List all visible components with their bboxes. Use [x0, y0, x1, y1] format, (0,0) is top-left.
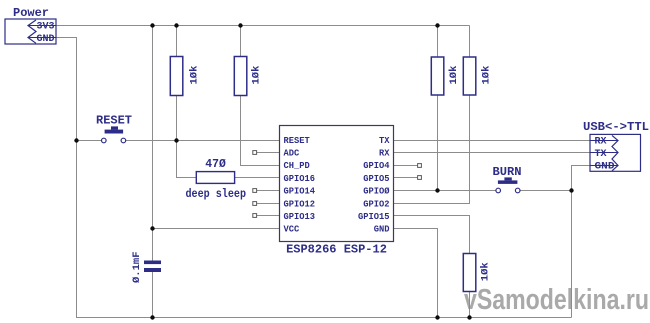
- pin stub GPIO4: [393, 165, 417, 167]
- junction VCC branch: [150, 226, 154, 230]
- svg-text:GPIO5: GPIO5: [363, 173, 390, 184]
- svg-text:RESET: RESET: [284, 135, 311, 146]
- svg-text:GND: GND: [37, 34, 55, 45]
- svg-text:ADC: ADC: [284, 148, 300, 159]
- wire GPIO2 to R4: [393, 95, 469, 204]
- resistor R2 10k: [234, 57, 247, 96]
- junction RESET wire at R1 bottom: [174, 138, 178, 142]
- wire RESET net: [77, 140, 102, 142]
- junction bottom rail at IC GND drop: [435, 315, 439, 319]
- wire top 3V3 rail: [56, 25, 470, 27]
- svg-text:ESP8266 ESP-12: ESP8266 ESP-12: [286, 243, 387, 257]
- svg-text:vSamodelkina.ru: vSamodelkina.ru: [464, 284, 649, 316]
- wire TX to USB RX: [393, 140, 590, 142]
- junction on 3V3 rail at VCC branch: [150, 23, 154, 27]
- svg-text:Power: Power: [13, 6, 49, 20]
- svg-text:RX: RX: [379, 148, 390, 159]
- junction on 3V3 rail at R3: [435, 23, 439, 27]
- junction GND vertical at RESET wire: [74, 138, 78, 142]
- wire VCC to IC: [153, 228, 280, 230]
- wire 470 to GPIO16: [235, 177, 280, 179]
- svg-text:GPIO12: GPIO12: [284, 198, 316, 209]
- op IC U1 ESP8266 ESP-12: [280, 126, 394, 242]
- wire capacitor bottom lead: [152, 272, 154, 318]
- svg-text:1Øk: 1Øk: [481, 66, 493, 85]
- pin stub GPIO12: [257, 203, 280, 205]
- svg-text:47Ø: 47Ø: [205, 157, 226, 171]
- button S1 RESET: [102, 126, 126, 142]
- svg-text:USB<->TTL: USB<->TTL: [583, 120, 649, 134]
- svg-text:1Øk: 1Øk: [448, 66, 460, 85]
- junction GPIO0 wire at R3 bottom: [435, 188, 439, 192]
- svg-text:GPIO14: GPIO14: [284, 186, 316, 197]
- wire deep sleep branch to 470: [177, 141, 197, 178]
- wire RX to USB TX: [393, 152, 590, 154]
- svg-text:1Øk: 1Øk: [189, 66, 201, 85]
- junction on 3V3 rail at R1: [174, 23, 178, 27]
- connector J2 USB<->TTL: [590, 134, 641, 172]
- svg-text:TX: TX: [595, 149, 607, 160]
- wire R4 top lead: [469, 26, 471, 58]
- pin stub GPIO13: [257, 215, 280, 217]
- wire R3 bottom lead to GPIO0: [437, 95, 439, 191]
- svg-text:1Øk: 1Øk: [251, 66, 263, 85]
- wire GPIO15 to R5: [393, 216, 469, 254]
- resistor R1 10k: [170, 57, 183, 96]
- wire GND from power connector down and along bottom rail: [56, 38, 572, 318]
- resistor R6 470 deep sleep: [196, 172, 234, 184]
- svg-text:GPIO13: GPIO13: [284, 211, 316, 222]
- svg-text:GND: GND: [595, 162, 615, 173]
- junction bottom rail at capacitor: [150, 315, 154, 319]
- resistor R5 10k: [463, 254, 476, 292]
- wire BURN to GND vertical: [520, 190, 572, 192]
- wire R1 top lead: [176, 26, 178, 57]
- svg-text:GPIOØ: GPIOØ: [363, 186, 390, 197]
- svg-text:RESET: RESET: [96, 114, 132, 128]
- svg-text:GPIO15: GPIO15: [358, 211, 390, 222]
- svg-text:Ø.1mF: Ø.1mF: [131, 251, 143, 283]
- wire R2 bottom lead to CH_PD: [241, 96, 280, 166]
- junction on 3V3 rail at R2: [238, 23, 242, 27]
- svg-text:TX: TX: [379, 135, 390, 146]
- svg-text:BURN: BURN: [493, 165, 522, 179]
- resistor R4 10k: [463, 57, 476, 95]
- svg-text:VCC: VCC: [284, 224, 300, 235]
- svg-text:RX: RX: [595, 137, 607, 148]
- wire RESET button to IC: [126, 140, 280, 142]
- junction BURN wire at GND vertical: [569, 188, 573, 192]
- svg-text:GPIO16: GPIO16: [284, 173, 316, 184]
- wire R1 bottom lead: [176, 96, 178, 141]
- connector J1 Power: [5, 19, 56, 45]
- resistor R3 10k: [431, 57, 444, 95]
- wire GPIO0 to BURN: [393, 190, 496, 192]
- wire R3 top lead: [437, 26, 439, 58]
- svg-text:GPIO2: GPIO2: [363, 198, 390, 209]
- button S2 BURN: [496, 177, 520, 192]
- wire VCC vertical from rail: [152, 26, 154, 261]
- wire right vertical to USB GND: [572, 166, 591, 318]
- pin stub GPIO14: [257, 190, 280, 192]
- wire R2 top lead: [240, 26, 242, 57]
- capacitor C1 0.1mF: [144, 261, 161, 265]
- svg-text:GND: GND: [374, 224, 390, 235]
- svg-text:3V3: 3V3: [37, 22, 55, 33]
- svg-text:deep sleep: deep sleep: [186, 188, 247, 201]
- pin stub ADC: [257, 152, 280, 154]
- svg-text:1Øk: 1Øk: [480, 262, 492, 281]
- svg-text:CH_PD: CH_PD: [284, 160, 311, 171]
- junction bottom rail at R5: [467, 315, 471, 319]
- pin stub GPIO5: [393, 177, 417, 179]
- svg-text:GPIO4: GPIO4: [363, 160, 390, 171]
- wire IC GND down to bottom rail: [393, 229, 437, 318]
- wire R5 bottom lead: [469, 292, 471, 318]
